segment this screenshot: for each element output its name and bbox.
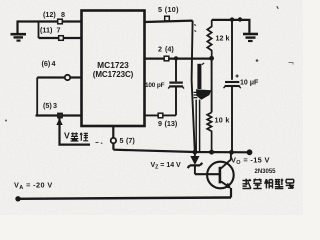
svg-text:5 (10): 5 (10) <box>158 5 179 14</box>
op IC U1 box MC1723 <box>82 11 145 127</box>
junction node rail <box>238 17 242 21</box>
pin terminal square 5(10) <box>165 16 170 21</box>
svg-text:MC1723: MC1723 <box>97 60 129 70</box>
Vref measurement leg with up arrow <box>60 118 91 145</box>
pin terminal square (11)7 <box>59 36 64 41</box>
svg-text:(6): (6) <box>42 59 51 68</box>
junction node divider/rail <box>209 150 214 155</box>
wire emitter down <box>230 188 232 198</box>
svg-text:4: 4 <box>52 59 56 68</box>
input terminal dot VA <box>15 196 20 201</box>
wire jumper 6-5 <box>36 78 38 116</box>
wire pin 5(10) Vout <box>145 21 193 22</box>
svg-text:(MC1723C): (MC1723C) <box>93 70 134 79</box>
scan specks <box>194 25 196 32</box>
svg-text:(5): (5) <box>43 101 52 110</box>
junction node INV/divider <box>209 56 214 61</box>
wire V- down to output rail <box>112 143 114 149</box>
svg-text:12 k: 12 k <box>216 33 230 42</box>
pin terminal square 9(13) <box>158 113 163 118</box>
resistor R1 12 k <box>207 20 211 58</box>
wire pin 2(4) INV <box>145 57 212 59</box>
junction node cap top <box>230 17 234 21</box>
svg-text:(12): (12) <box>43 10 56 19</box>
collector <box>221 152 231 168</box>
capacitor C2 10 uF branch <box>231 20 233 80</box>
wire pin (11)7 <box>39 37 82 39</box>
capacitor C1 100 pF branch <box>175 58 177 81</box>
junction node zener/rail <box>193 150 198 155</box>
svg-text:(4): (4) <box>165 45 174 54</box>
svg-text:100 pF: 100 pF <box>145 82 165 89</box>
node circle on pin (6)4 <box>65 75 70 80</box>
svg-text:10 k: 10 k <box>215 116 230 125</box>
diode D1 (base drive column) bar <box>197 64 201 89</box>
svg-text:(11): (11) <box>40 26 53 35</box>
diode D1 arrow blob <box>196 89 211 99</box>
wire pin (12)8 <box>17 20 82 22</box>
node circle pin 5(7) <box>111 138 116 143</box>
ground (left, at V+ / Vc pins) <box>11 22 27 41</box>
polarity mark + <box>236 74 239 77</box>
svg-text:5: 5 <box>120 136 124 145</box>
pin terminal square (12)8 <box>58 19 63 24</box>
svg-text:2: 2 <box>158 45 162 54</box>
wire divider middle <box>211 58 213 112</box>
output terminal dot Vo <box>247 149 253 155</box>
zener diode VZ 14V <box>194 152 196 156</box>
wire pin (5)3 <box>36 114 82 116</box>
label 或类似型号 <box>243 179 295 189</box>
wire top-right ground rail <box>212 20 250 33</box>
svg-text:7: 7 <box>57 26 61 35</box>
junction node INV/cap <box>174 56 178 60</box>
svg-text:8: 8 <box>61 10 65 19</box>
svg-text:(13): (13) <box>165 119 178 128</box>
svg-text:VO = -15 V: VO = -15 V <box>231 155 270 166</box>
svg-text:VA = -20 V: VA = -20 V <box>14 180 53 191</box>
pin terminal square 2(4) <box>164 56 169 61</box>
wire jumper 12-11 <box>38 22 40 39</box>
wire pin (6)4 <box>37 76 81 78</box>
transistor Q1 2N3055 <box>207 162 234 189</box>
svg-text:10 μF: 10 μF <box>240 80 259 87</box>
wire zener to base <box>195 173 220 175</box>
svg-text:3: 3 <box>53 101 57 110</box>
wire Vout vertical down to rail <box>192 21 195 152</box>
IC bottom pin wire V- <box>112 126 114 138</box>
wire VA input rail <box>18 198 231 199</box>
svg-text:(7): (7) <box>126 136 135 145</box>
resistor R2 10 k <box>207 112 211 152</box>
svg-text:2N3055: 2N3055 <box>255 169 277 175</box>
ground (right) <box>243 34 258 41</box>
emitter with arrow <box>221 181 230 187</box>
wire output rail Vo <box>113 150 249 153</box>
svg-text:V: V <box>64 131 70 141</box>
junction node cap/collector on rail <box>229 150 234 155</box>
wire diode legs down <box>195 100 197 152</box>
svg-text:VZ = 14 V: VZ = 14 V <box>151 162 182 171</box>
pin terminal square (5)3 <box>58 113 63 118</box>
svg-text:9: 9 <box>158 119 162 128</box>
